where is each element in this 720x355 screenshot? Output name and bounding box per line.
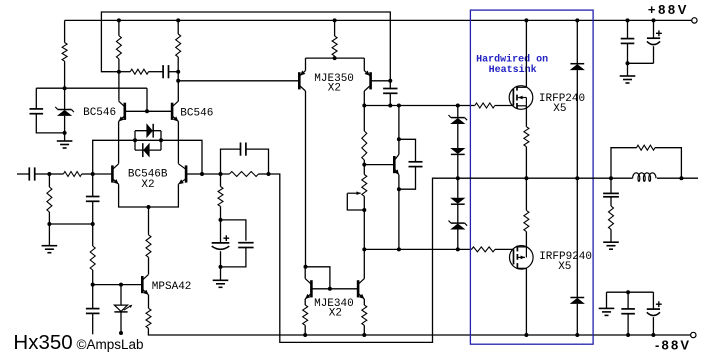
- zener Z1 (reference): [55, 107, 74, 116]
- wire output terminal lead: [681, 177, 698, 179]
- transistor Q2 BC546 (right cascode): [172, 101, 178, 121]
- wire R16 to gate: [495, 248, 514, 250]
- node C13 rail dot: [626, 333, 630, 337]
- wire output line: [458, 177, 611, 179]
- node C14 rail dot: [651, 333, 655, 337]
- wire Q1 emitter to Q3 collector: [118, 122, 120, 164]
- label Heatsink: [489, 64, 537, 76]
- wire Q7 base to rail1: [371, 80, 391, 82]
- node top filter ground dot: [626, 61, 630, 65]
- capacitor C6 (feedback lead): [241, 143, 246, 156]
- node input ground node dot: [47, 222, 51, 226]
- resistor R22 (Zobel): [609, 206, 614, 229]
- label X2 (MJE350): [328, 83, 341, 95]
- svg-text:©AmpsLab: ©AmpsLab: [77, 337, 144, 352]
- wire clamp left drop: [93, 140, 135, 174]
- resistor R2 (input collector load): [116, 36, 121, 59]
- wire Z2-D3 link: [457, 124, 459, 148]
- capacitor C15 (Zobel): [603, 178, 619, 206]
- svg-text:+88V: +88V: [648, 2, 689, 17]
- wire lower gate node: [364, 248, 471, 250]
- wire R2 bottom: [118, 59, 120, 72]
- node VAS feed junction dot: [117, 70, 121, 74]
- wire Q2 emitter to Q4 collector: [177, 122, 179, 164]
- svg-text:Hx350: Hx350: [13, 331, 72, 354]
- node clamp right dot: [159, 138, 163, 142]
- resistor R4 (second collector load): [176, 34, 181, 57]
- terminal +88V (open circle): [692, 18, 697, 23]
- node R2 rail dot: [117, 18, 121, 22]
- wire R18 to output: [525, 178, 527, 210]
- label (c)AmpsLab: [77, 337, 144, 352]
- label BC546 Q2: [180, 107, 213, 119]
- label -88V: [655, 337, 691, 352]
- mosfet M1 IRFP240: [509, 86, 533, 110]
- resistor R13 (IRFP240 gate): [475, 103, 495, 108]
- svg-text:X5: X5: [558, 261, 571, 273]
- wire input ground link: [49, 223, 92, 225]
- capacitor C10 (VBE bypass): [409, 162, 423, 167]
- node FB right dot: [267, 172, 271, 176]
- node LED top dot: [119, 283, 123, 287]
- wire Q1 collector column: [118, 72, 120, 101]
- node shunt cap dot: [219, 218, 223, 222]
- node mirror collector dot: [304, 265, 308, 269]
- diode D2 (clamp lower, pointing left): [143, 143, 150, 158]
- wire MJE340 base bus: [311, 288, 358, 290]
- resistor R6 (input series): [63, 172, 81, 177]
- wire Q9 collector stub: [304, 267, 306, 279]
- node clamp left dot: [133, 138, 137, 142]
- wire MJE350 emitter rail: [306, 57, 365, 59]
- svg-text:Heatsink: Heatsink: [489, 64, 537, 76]
- capacitor C5 (reference bypass): [86, 309, 100, 314]
- node RC output dot: [176, 70, 180, 74]
- svg-text:X2: X2: [328, 83, 341, 95]
- resistor R1 (bias divider upper): [62, 43, 67, 62]
- label BC546 Q1: [83, 107, 116, 119]
- wire IRFP9240 source: [525, 232, 527, 247]
- wire LED bottom: [120, 312, 122, 332]
- svg-text:MPSA42: MPSA42: [152, 281, 192, 293]
- resistor R21 (damping, parallel L1): [611, 145, 681, 178]
- wire clamp right drop: [161, 140, 202, 174]
- wire R14 bottom: [363, 160, 365, 165]
- label BC546B: [128, 169, 168, 181]
- wire C8 bottom: [221, 248, 246, 267]
- capacitor C4 (input RF filter): [86, 197, 100, 202]
- label MJE340: [314, 298, 354, 310]
- wire C5 bottom: [92, 313, 94, 334]
- wire Q10 collector stub: [363, 249, 365, 278]
- wire R14 top: [363, 106, 365, 132]
- wire R4 top connection: [177, 20, 179, 34]
- diode D3 (gate protect): [450, 148, 465, 154]
- resistor R14 (bias chain upper): [362, 131, 367, 160]
- wire IRFP240 source: [525, 106, 527, 127]
- wire IRFP240 drain: [525, 20, 527, 87]
- resistor R7 (tail reference): [90, 246, 95, 270]
- wire zener Z1 top: [64, 88, 66, 109]
- transistor Q8 (VBE multiplier): [394, 154, 399, 174]
- wire R17 to output: [525, 147, 527, 179]
- label X2 (BC546B): [141, 179, 154, 191]
- node VBE top dot: [397, 137, 401, 141]
- transistor Q5 MPSA42 (tail current source): [142, 274, 148, 294]
- transistor Q3 BC546B (diff pair left): [112, 164, 118, 184]
- wire input cap to node: [35, 173, 49, 175]
- label IRFP240: [539, 93, 585, 105]
- node tail dot: [147, 205, 151, 209]
- mosfet M2 IRFP9240: [510, 246, 534, 270]
- wire R19 bottom: [304, 325, 306, 335]
- wire mirror top link: [306, 267, 330, 289]
- label X2 (MJE340): [329, 307, 342, 319]
- wire +88V rail (top supply rail): [65, 19, 692, 21]
- label X5 (IRFP240): [553, 103, 566, 115]
- node Q7 base dot: [388, 79, 392, 83]
- wire R15 bottom: [363, 196, 365, 249]
- wire D6 top: [576, 178, 578, 297]
- node zener-ground junction dot: [63, 131, 67, 135]
- label IRFP9240: [539, 251, 592, 263]
- wire Q2 collector stub: [177, 81, 179, 101]
- wire R11 top: [220, 174, 222, 187]
- wire R15 top: [363, 165, 365, 175]
- node input base dot: [91, 172, 95, 176]
- svg-text:-88V: -88V: [655, 337, 691, 352]
- wire VBE collector stub: [398, 139, 400, 154]
- resistor R19 (Q9 emitter): [303, 305, 308, 325]
- node R4 rail dot: [176, 18, 180, 22]
- resistor R8 (tail degeneration): [146, 235, 151, 257]
- wire MPSA42 emitter: [148, 295, 150, 309]
- node MPSA42 base node dot: [91, 283, 95, 287]
- resistor R12 (VAS emitter feed): [332, 36, 337, 56]
- label X5 (IRFP9240): [558, 261, 571, 273]
- node Q2 collector dot: [176, 79, 180, 83]
- zener Z3 (gate protect lower): [449, 221, 468, 230]
- wire Q7 collector drop: [363, 91, 365, 106]
- wire bias cap bottom link: [36, 114, 64, 133]
- node R19 rail dot: [303, 333, 307, 337]
- wire shunt caps link: [221, 220, 246, 241]
- wire R13 to gate: [495, 105, 514, 107]
- node FB shunt dot: [219, 172, 223, 176]
- label MJE350: [314, 73, 354, 85]
- wire FB node link: [202, 173, 229, 175]
- wire C6 loop: [221, 149, 269, 174]
- wire VBE base link: [364, 164, 393, 166]
- diode D7 LED (bias reference): [114, 305, 132, 312]
- wire R12 bottom: [334, 56, 336, 58]
- wire R12 top: [334, 20, 336, 36]
- capacitor C11 (+88V film): [621, 20, 635, 63]
- wire top filter link: [628, 62, 654, 64]
- wire cascode base bus: [125, 110, 172, 112]
- wire RC left link: [119, 71, 130, 73]
- wire MJE350L emitter drop: [305, 58, 307, 71]
- wire C10 loop bottom: [399, 167, 416, 190]
- label +88V: [648, 2, 689, 17]
- svg-text:X5: X5: [553, 103, 566, 115]
- wire bottom filter link: [607, 291, 654, 293]
- terminal -88V (open circle): [691, 332, 696, 337]
- transistor Q6 MJE350 (left): [299, 71, 305, 91]
- node MJE340 base dot: [328, 287, 332, 291]
- resistor R3 (lead network): [130, 69, 148, 74]
- node D string mid dot: [456, 176, 460, 180]
- wire RC right link: [169, 71, 179, 73]
- wire Q6 collector column: [305, 91, 307, 267]
- resistor R10 (feedback): [229, 172, 258, 177]
- wire IRFP9240 drain: [525, 268, 527, 335]
- node cascode base dot: [145, 109, 149, 113]
- wire C4 top: [92, 174, 94, 197]
- wire cascode base tap: [146, 88, 148, 111]
- wire internal top rail (rail1): [101, 12, 390, 81]
- resistor R16 (IRFP9240 gate): [472, 247, 496, 252]
- label Hardwired on: [476, 54, 548, 66]
- ground G3 (feedback): [213, 267, 229, 287]
- wire clamp diode box: [135, 131, 161, 150]
- capacitor C13 (-88V film): [621, 292, 635, 335]
- wire R5 bottom: [48, 212, 50, 224]
- wire MJE350 base feed: [178, 80, 298, 82]
- wire D4 top: [457, 178, 459, 198]
- node flyback bottom rail dot: [575, 333, 579, 337]
- wire D6 bottom: [576, 304, 578, 335]
- wire MPSA42 base wire: [93, 284, 142, 286]
- transistor Q4 BC546B (diff pair right): [178, 164, 186, 184]
- node VBE bottom dot: [397, 187, 401, 191]
- ground G4 (+88V filter): [620, 63, 636, 83]
- wire C9 top: [389, 81, 391, 89]
- svg-text:X2: X2: [329, 307, 342, 319]
- node bias tap dot: [362, 163, 366, 167]
- wire R7 top: [92, 224, 94, 246]
- node flyback top rail dot: [575, 18, 579, 22]
- wire C10 loop top: [399, 139, 416, 162]
- zener Z2 (gate protect upper): [449, 115, 468, 124]
- capacitor C1 (bias filter): [30, 109, 44, 114]
- inductor L1 (output): [611, 173, 681, 182]
- wire FB right link: [259, 173, 269, 175]
- diode D4 (gate protect): [450, 198, 465, 204]
- wire input lead: [17, 173, 29, 175]
- wire RC mid link: [149, 71, 164, 73]
- node R20 rail dot: [362, 333, 366, 337]
- wire D5 bottom: [576, 70, 578, 178]
- node input bias dot: [47, 172, 51, 176]
- wire C9 bottom: [389, 93, 391, 105]
- wire R11 bottom: [220, 206, 222, 220]
- node pot bottom dot: [362, 208, 366, 212]
- resistor R5 (input bias to ground): [47, 187, 52, 212]
- node MJE350 emitter dot: [333, 56, 337, 60]
- node MJE350 rail resistor dot: [333, 18, 337, 22]
- ground G6 (Zobel): [603, 229, 619, 249]
- wire -88V rail (bottom supply rail): [148, 328, 690, 335]
- wire VBE to lower node: [398, 189, 400, 249]
- node lower gate dots: [362, 247, 460, 251]
- node IRFP9240 drain rail dot: [524, 333, 528, 337]
- diode D6 (flyback lower): [570, 298, 585, 304]
- node LED terminal dot: [119, 331, 123, 335]
- wire D5 top: [576, 20, 578, 63]
- resistor R20 (Q10 emitter): [362, 305, 367, 325]
- wire diff tail left: [119, 184, 179, 207]
- wire zener Z1 bottom: [64, 116, 66, 133]
- capacitor C14 electrolytic (-88V): [647, 292, 662, 335]
- node output R/L dot: [679, 176, 683, 180]
- node upper gate dots: [362, 104, 460, 108]
- ground G2 (input): [42, 224, 58, 253]
- transistor Q7 MJE350 (right): [364, 71, 370, 91]
- wire Z3 bottom: [457, 230, 459, 250]
- wire clamp mid left: [135, 139, 161, 141]
- transistor Q9 MJE340 (left, diode-connected): [305, 279, 311, 299]
- wire feedback tap from output: [269, 174, 458, 342]
- wire R1 top connection: [64, 20, 66, 42]
- wire R8 to MPSA42 collector: [148, 257, 150, 274]
- svg-text:Hardwired on: Hardwired on: [476, 54, 548, 66]
- wire tail to R8: [148, 207, 150, 235]
- wire base link to Q3: [93, 173, 112, 175]
- resistor R18 (IRFP9240 source): [524, 210, 529, 231]
- capacitor C12 electrolytic (+88V): [647, 20, 662, 63]
- transistor Q1 BC546 (left cascode): [119, 101, 125, 121]
- wire VBE emitter stub: [398, 175, 400, 189]
- wire R6 left: [49, 173, 63, 175]
- svg-text:BC546: BC546: [180, 107, 213, 119]
- node FB base dot: [200, 172, 204, 176]
- wire bias cap top link: [35, 88, 37, 109]
- wire VBE collector top: [398, 106, 400, 140]
- resistor R15 preset (bias pot): [362, 175, 367, 197]
- wire R20 bottom: [363, 325, 365, 335]
- wire LED top: [120, 285, 122, 306]
- wire R4 bottom: [177, 57, 179, 81]
- label MPSA42: [152, 281, 192, 293]
- wire R1 to bias node: [64, 61, 66, 88]
- wire D4-Z3 link: [457, 205, 459, 224]
- wire Q4 base link: [186, 173, 202, 175]
- node C4 bottom dot: [91, 222, 95, 226]
- capacitor C7 electrolytic (feedback shunt): [212, 220, 230, 267]
- wire Q9 emitter: [304, 299, 306, 305]
- wire R5 top: [48, 174, 50, 187]
- node shunt ground dot: [219, 265, 223, 269]
- wire C4 bottom: [92, 201, 94, 224]
- wire R7 bottom: [92, 270, 94, 285]
- node bottom filter dot: [626, 290, 630, 294]
- wire Q10 emitter: [363, 299, 365, 305]
- pot wiper arrow: [347, 191, 364, 210]
- node output dots: [524, 176, 613, 180]
- ground G5 (-88V filter): [599, 292, 615, 315]
- node bias junction dot: [63, 86, 67, 90]
- svg-text:BC546: BC546: [83, 107, 116, 119]
- resistor R17 (IRFP240 source): [524, 127, 529, 147]
- node filter cap dots top: [626, 18, 656, 22]
- wire R2 top connection: [118, 20, 120, 35]
- node IRFP240 drain rail dot: [524, 18, 528, 22]
- wire D string top: [457, 106, 459, 118]
- label Hx350: [13, 331, 72, 354]
- wire upper gate node: [364, 105, 475, 107]
- resistor R11 (feedback shunt): [218, 187, 223, 207]
- heatsink boundary box: [470, 10, 593, 344]
- capacitor C2 (lead network): [163, 65, 168, 78]
- transistor Q10 MJE340 (right): [358, 279, 364, 299]
- capacitor C8 (feedback shunt bypass): [238, 243, 253, 248]
- capacitor C3 (input coupling): [29, 167, 34, 180]
- diode D1 (clamp upper, pointing right): [146, 123, 153, 138]
- capacitor C9 (compensation): [383, 89, 397, 94]
- ground G1 (bias network): [57, 133, 73, 148]
- wire MJE350R emitter drop: [363, 58, 365, 71]
- svg-text:X2: X2: [141, 179, 154, 191]
- diode D5 (flyback upper): [570, 64, 585, 70]
- wire C5 top: [92, 285, 94, 309]
- wire bias reference rail: [36, 87, 147, 89]
- wire D3 to output: [457, 155, 459, 178]
- wire R6 right: [82, 173, 93, 175]
- resistor R9 (current source emitter): [146, 308, 151, 328]
